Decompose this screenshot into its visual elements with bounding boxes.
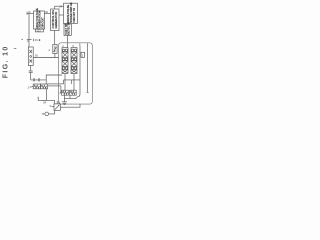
wire box C top to box B top xyxy=(55,6,64,9)
small box M xyxy=(81,52,85,57)
switch box I xyxy=(53,45,57,54)
wire input to box A xyxy=(27,13,34,15)
svg-text:GENERATOR: GENERATOR xyxy=(54,12,58,29)
box B control circuit xyxy=(51,9,60,31)
box G output circuit xyxy=(64,24,71,35)
wire left resistors to right xyxy=(48,85,61,87)
tall driver box P xyxy=(28,47,33,66)
right resistor box 2 xyxy=(70,90,77,95)
svg-text:CIRCUIT 34: CIRCUIT 34 xyxy=(72,8,76,23)
wire junction up to enclosure xyxy=(46,75,62,84)
transistor box X xyxy=(54,104,60,111)
wire resistor output down to right resistor 1 xyxy=(60,86,63,93)
transistor X marks in P xyxy=(29,50,32,53)
bottom wire with label xyxy=(42,100,55,104)
wire box B to box C xyxy=(59,14,64,16)
chain box D xyxy=(62,48,68,74)
node mark and label 26 xyxy=(33,39,35,41)
right inner wire with hook xyxy=(77,46,80,97)
box C drive signal generator xyxy=(64,3,78,23)
wire under P with capacitor xyxy=(30,66,32,71)
svg-text:04: 04 xyxy=(43,100,47,104)
wire left vertical bus xyxy=(28,14,30,48)
wire detour to right bus xyxy=(64,80,81,84)
wire circle to transistor box xyxy=(49,110,55,114)
parallel wire above xyxy=(48,83,64,85)
internal right bus wire xyxy=(87,43,89,92)
svg-text:16: 16 xyxy=(27,10,31,14)
tiny dash left of bus xyxy=(22,38,24,40)
svg-text:30: 30 xyxy=(45,10,49,14)
svg-text:24: 24 xyxy=(59,5,63,9)
junction cross mark xyxy=(38,39,40,41)
svg-text:123: 123 xyxy=(37,30,42,33)
svg-text:26: 26 xyxy=(35,38,39,42)
svg-text:36: 36 xyxy=(35,54,39,58)
wires chains down to right resistors xyxy=(64,74,66,91)
leads under right resistors to ground xyxy=(64,95,76,101)
wire box A to box B xyxy=(45,13,51,15)
ground symbol xyxy=(62,102,67,105)
left resistor box 1 xyxy=(33,84,40,89)
capacitor row xyxy=(31,78,47,81)
feedback loop under left resistors xyxy=(38,89,46,101)
wire transistor box to enclosure bottom xyxy=(60,104,80,107)
wire box B down to switch box I xyxy=(54,31,56,45)
node tick input xyxy=(26,12,28,14)
oscillator circle xyxy=(45,112,49,116)
svg-text:DETECTR: DETECTR xyxy=(67,22,71,35)
big enclosure H xyxy=(59,43,93,104)
box A high voltage generator xyxy=(34,11,45,29)
small box F below box A xyxy=(35,29,43,32)
svg-text:CIRCUIT: CIRCUIT xyxy=(40,17,44,28)
wire driver output to enclosure xyxy=(33,57,58,59)
chain box E xyxy=(71,48,77,74)
capacitor ticks on left bus xyxy=(27,39,32,41)
label 7 dash xyxy=(14,47,16,49)
arrow into circle xyxy=(42,113,45,115)
svg-text:FIG. 10: FIG. 10 xyxy=(3,45,10,78)
wire box I bottom stub xyxy=(54,54,56,58)
right resistor box 1 xyxy=(62,90,69,95)
wire box G down into enclosure xyxy=(67,35,69,47)
left resistor box 2 xyxy=(40,84,47,89)
